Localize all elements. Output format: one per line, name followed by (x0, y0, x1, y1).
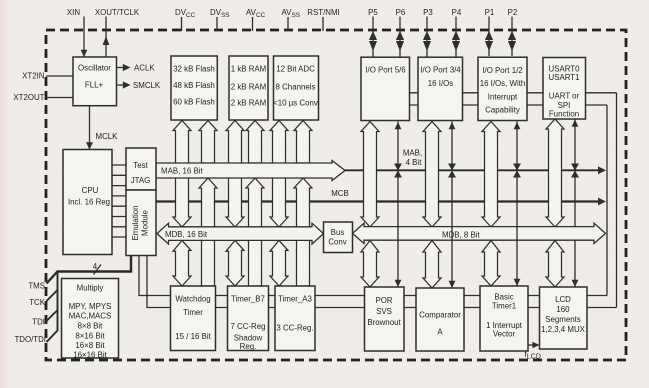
oscillator FLL+ box (73, 57, 117, 106)
svg-text:Multiply: Multiply (77, 284, 104, 293)
svg-text:MAB,: MAB, (403, 149, 422, 158)
wire: RAM MDB lane (226, 121, 244, 228)
wire: right loop vertical outer x616.5 (616, 93, 618, 308)
wire: P5 pin line (369, 17, 377, 58)
wire: TDI diagonal (47, 289, 58, 321)
svg-text:Function: Function (549, 109, 579, 118)
wire: AVSS stub (287, 17, 289, 31)
svg-text:P5: P5 (368, 8, 378, 17)
wire: XT2OUT line (46, 97, 73, 99)
wire: Port3/4 MDB lane (423, 122, 441, 228)
node MAB 16-bit band (156, 161, 345, 181)
svg-text:16×8 Bit: 16×8 Bit (75, 341, 105, 350)
wire: TimerB7 MDB lane (226, 240, 244, 286)
wire: MAB 4-bit thin line (340, 166, 606, 174)
Multiply box (62, 279, 119, 359)
svg-text:<10 µs Conv: <10 µs Conv (273, 99, 318, 108)
USART box (543, 58, 586, 120)
wire: XIN pin line (83, 17, 85, 58)
svg-text:I/O Port 3/4: I/O Port 3/4 (420, 66, 461, 75)
I/O Port 5/6 box (361, 57, 410, 120)
svg-text:I/O Port 5/6: I/O Port 5/6 (365, 66, 406, 75)
svg-text:16 I/Os: 16 I/Os (428, 79, 453, 88)
wire: USART dark line x575 (571, 119, 579, 287)
LCD box (540, 287, 588, 349)
node MDB 16-bit band (157, 223, 324, 244)
POR SVS Brownout box (365, 287, 405, 351)
wire: DVSS stub (216, 17, 218, 31)
svg-text:1 kB RAM: 1 kB RAM (231, 65, 267, 74)
svg-text:P4: P4 (452, 8, 462, 17)
svg-text:P2: P2 (508, 8, 518, 17)
svg-text:FLL+: FLL+ (85, 81, 104, 90)
svg-text:Capability: Capability (485, 105, 520, 114)
svg-text:Basic: Basic (494, 293, 513, 302)
svg-text:Comparator: Comparator (419, 311, 461, 320)
svg-text:7 CC-Reg: 7 CC-Reg (230, 322, 265, 331)
wire: Port5/6 dark line to POR (394, 122, 402, 288)
wire: XT2IN line (46, 75, 73, 77)
svg-text:TMS: TMS (28, 282, 45, 291)
wire: CPU-JTAG ladder (112, 165, 126, 237)
svg-text:16×16 Bit: 16×16 Bit (73, 351, 107, 360)
svg-text:Oscillator: Oscillator (78, 64, 111, 73)
CPU box (63, 150, 112, 255)
svg-text:2 kB RAM: 2 kB RAM (231, 83, 267, 92)
svg-text:Watchdog: Watchdog (175, 295, 210, 304)
wire: POR MDB lane (361, 241, 379, 288)
wire: P4 pin line (452, 17, 460, 58)
svg-text:P3: P3 (423, 8, 433, 17)
wire: BasicTimer MDB lane (482, 241, 500, 287)
svg-text:MAB, 16 Bit: MAB, 16 Bit (161, 167, 203, 176)
svg-text:15 / 16 Bit: 15 / 16 Bit (175, 332, 211, 341)
svg-text:Module: Module (141, 209, 150, 235)
svg-text:4: 4 (93, 262, 98, 271)
wire: P1 pin line (485, 17, 493, 57)
svg-text:MPY, MPYS: MPY, MPYS (69, 302, 112, 311)
svg-text:XOUT/TCLK: XOUT/TCLK (95, 8, 140, 17)
svg-text:8×16 Bit: 8×16 Bit (75, 332, 105, 341)
svg-text:TDO/TDI: TDO/TDI (14, 335, 46, 344)
wire: Comparator MDB lane (423, 241, 441, 289)
svg-text:POR: POR (375, 296, 392, 305)
svg-text:A: A (437, 328, 443, 337)
flash memory box (171, 56, 217, 120)
wire: TimerB7 MAB lane (246, 178, 264, 286)
wire: DVCC stub (181, 17, 183, 31)
svg-text:8×8 Bit: 8×8 Bit (78, 322, 104, 331)
wire: ADC MDB lane (270, 121, 288, 228)
svg-text:48 kB Flash: 48 kB Flash (173, 81, 215, 90)
svg-text:XT2IN: XT2IN (22, 72, 45, 81)
svg-text:SVS: SVS (376, 307, 392, 316)
svg-text:60 kB Flash: 60 kB Flash (173, 98, 215, 107)
svg-text:JTAG: JTAG (131, 176, 151, 185)
svg-text:Reg.: Reg. (240, 342, 257, 351)
svg-text:Incl. 16 Reg: Incl. 16 Reg (68, 198, 110, 207)
svg-text:4 Bit: 4 Bit (406, 158, 423, 167)
svg-text:TCK: TCK (29, 298, 46, 307)
wire: USART MDB lane (546, 119, 564, 227)
wire: MCLK line (86, 106, 93, 150)
Timer_A3 box (275, 286, 315, 351)
svg-text:Vector: Vector (493, 330, 516, 339)
Watchdog timer box (171, 286, 216, 351)
wire: Watchdog MDB lane (double arrow) (173, 240, 191, 286)
svg-text:MCB: MCB (331, 189, 349, 198)
wire: right loop vertical inner x607 (606, 105, 608, 296)
wire: Port3/4 dark line to Comparator (448, 122, 456, 289)
wire: TimerA3 MDB lane (270, 240, 288, 286)
outer dashed border (46, 30, 626, 360)
svg-text:MAC,MACS: MAC,MACS (69, 312, 112, 321)
svg-text:XIN: XIN (67, 8, 80, 17)
wire: MCB thick line (156, 198, 606, 206)
I/O Port 1/2 box (478, 57, 527, 120)
wire: JTAG thick bus with corner to TMS (47, 256, 132, 284)
svg-text:Interrupt: Interrupt (488, 92, 518, 101)
svg-text:LCD: LCD (555, 295, 571, 304)
wire: P3 pin line (423, 17, 431, 58)
node MDB 8-bit band (353, 223, 606, 243)
svg-text:UART or: UART or (549, 92, 580, 101)
svg-text:Brownout: Brownout (367, 318, 401, 327)
svg-text:Timer_B7: Timer_B7 (231, 295, 265, 304)
svg-text:Timer1: Timer1 (492, 302, 516, 311)
ADC box (274, 56, 319, 120)
wire: Flash MDB lane (double arrow) (173, 121, 191, 228)
wire: fLCD arrow (528, 342, 540, 349)
wire: emulation control line A (139, 256, 171, 296)
wire: Port1/2 dark line to BasicTimer (513, 122, 521, 287)
svg-text:I/O Port 1/2: I/O Port 1/2 (482, 66, 522, 75)
svg-text:Bus: Bus (331, 228, 345, 237)
svg-text:MDB, 16 Bit: MDB, 16 Bit (165, 230, 208, 239)
Basic Timer1 box (480, 286, 528, 351)
svg-text:1,2,3,4 MUX: 1,2,3,4 MUX (541, 325, 586, 334)
Timer_B7 box (228, 286, 269, 351)
wire: LCD MDB lane (546, 241, 564, 288)
svg-text:P6: P6 (396, 8, 406, 17)
svg-text:2 kB RAM: 2 kB RAM (231, 99, 267, 108)
wire: TDO/TDI diagonal (47, 309, 58, 342)
wire: XOUT/TCLK pin line (105, 17, 107, 58)
svg-text:Emulation: Emulation (131, 205, 140, 240)
svg-text:160: 160 (556, 305, 570, 314)
svg-text:Conv: Conv (328, 238, 346, 247)
wire: SMCLK arrow (117, 81, 131, 88)
Emulation module box (126, 190, 156, 256)
wire: JTAG 4-bus slash (94, 265, 102, 275)
wire: top port interconnect y93 (410, 92, 617, 94)
wire: top port interconnect y105.5 (410, 104, 608, 106)
Bus Conv box (324, 222, 353, 253)
wire: P6 pin line (396, 17, 404, 58)
wire: Port1/2 MDB lane (482, 122, 500, 228)
svg-text:16 I/Os, With: 16 I/Os, With (480, 79, 526, 88)
svg-text:12 Bit ADC: 12 Bit ADC (276, 65, 315, 74)
svg-text:RST/NMI: RST/NMI (307, 8, 339, 17)
svg-text:TDI: TDI (32, 318, 45, 327)
svg-text:MDB, 8 Bit: MDB, 8 Bit (442, 231, 481, 240)
svg-text:8 Channels: 8 Channels (276, 83, 316, 92)
wire: AVCC stub (252, 17, 254, 31)
wire: Port5/6 MDB lane (361, 122, 379, 228)
svg-text:ACLK: ACLK (134, 64, 155, 73)
Test JTAG box (126, 148, 156, 190)
wire: bottom bus line upper y295.5 segments (216, 295, 608, 297)
svg-text:XT2OUT: XT2OUT (13, 93, 44, 102)
svg-text:Timer: Timer (183, 308, 203, 317)
wire: Watchdog MAB lane (up arrow below band) (199, 178, 217, 286)
wire: TCK diagonal (47, 272, 58, 302)
svg-text:32 kB Flash: 32 kB Flash (173, 65, 215, 74)
svg-text:MCLK: MCLK (96, 132, 119, 141)
wire: RAM MAB lane (246, 121, 264, 164)
Comparator A box (416, 288, 464, 351)
wire: ACLK arrow (117, 64, 131, 71)
wire: P2 pin line (508, 17, 516, 57)
svg-text:Timer_A3: Timer_A3 (278, 295, 313, 304)
svg-text:3 CC-Reg.: 3 CC-Reg. (276, 324, 313, 333)
wire: emulation control line B (147, 256, 171, 308)
svg-text:CPU: CPU (82, 186, 99, 195)
wire: TimerA3 MAB lane (294, 178, 312, 286)
svg-text:P1: P1 (485, 8, 495, 17)
RAM box (229, 56, 268, 120)
wire: RST/NMI stub (322, 17, 324, 31)
svg-text:Test: Test (133, 161, 148, 170)
wire: bottom bus line lower y307.5 segments (216, 307, 617, 309)
I/O Port 3/4 box (418, 57, 463, 120)
svg-text:SMCLK: SMCLK (133, 81, 161, 90)
svg-text:Segments: Segments (545, 315, 581, 324)
svg-text:USART1: USART1 (549, 73, 580, 82)
wire: Flash MAB lane (up arrow) (199, 121, 217, 164)
wire: ADC MAB lane (294, 121, 312, 164)
